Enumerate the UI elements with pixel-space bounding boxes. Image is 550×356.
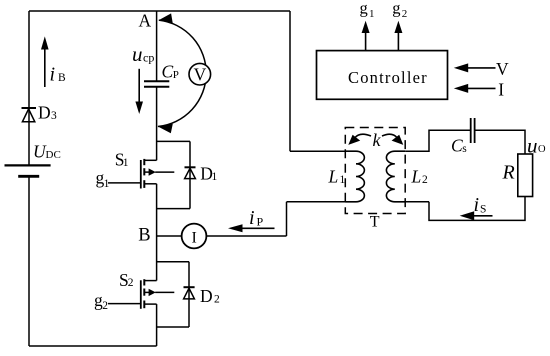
svg-text:T: T xyxy=(370,213,380,230)
voltmeter V xyxy=(189,63,211,85)
S2 drain stub xyxy=(144,280,156,282)
S1 gate bar xyxy=(140,160,142,189)
svg-text:S: S xyxy=(480,203,486,215)
svg-text:1: 1 xyxy=(340,174,346,186)
svg-text:D: D xyxy=(38,102,51,122)
wire L2 bottom lead xyxy=(405,201,429,203)
svg-text:A: A xyxy=(139,10,152,30)
MOSFET S2 xyxy=(108,279,174,309)
svg-text:D: D xyxy=(200,286,213,306)
svg-text:O: O xyxy=(538,144,546,155)
S2 body arrowhead xyxy=(149,289,156,296)
svg-text:g: g xyxy=(392,0,400,17)
inductor L1 xyxy=(345,151,364,202)
battery UDC long plate xyxy=(5,164,51,166)
controller input arrow V xyxy=(454,63,496,72)
S1 body arrowhead xyxy=(149,168,156,175)
wire D1 top tap xyxy=(157,140,190,142)
svg-text:Controller: Controller xyxy=(348,68,428,87)
inductor L2 xyxy=(386,151,405,202)
svg-text:I: I xyxy=(192,230,197,247)
svg-text:2: 2 xyxy=(214,293,220,305)
wire primary bottom riser xyxy=(286,202,288,236)
svg-text:2: 2 xyxy=(128,277,134,289)
wire D2 branch xyxy=(188,262,190,327)
wire mid rail CP to S1 drain xyxy=(156,87,158,160)
S1 drain stub xyxy=(144,159,156,161)
gate signal arrow g2 xyxy=(394,21,402,51)
S1 gate lead g1 xyxy=(108,182,141,184)
wire L2 top lead riser xyxy=(405,130,471,151)
svg-text:i: i xyxy=(249,207,255,229)
wire left rail upper xyxy=(28,11,30,165)
annotation arrow iS xyxy=(460,211,493,220)
wire D1 bottom tap xyxy=(157,208,190,210)
svg-text:B: B xyxy=(58,72,66,84)
wire left rail lower xyxy=(28,176,30,346)
diode D2 xyxy=(184,287,195,299)
wire L1 top lead xyxy=(290,150,356,152)
wire R to bottom xyxy=(429,197,525,221)
wire I meter to primary corner xyxy=(206,235,286,237)
wire Cs to right corner xyxy=(475,130,525,154)
coupling k arrow left xyxy=(348,134,371,145)
ammeter I xyxy=(182,224,207,249)
S2 source stub xyxy=(144,303,156,305)
wire D2 bottom tap xyxy=(157,326,189,328)
capacitor CP xyxy=(144,81,169,86)
svg-text:1: 1 xyxy=(369,8,375,20)
wire mid rail S1 source to S2 drain xyxy=(156,184,158,281)
svg-text:L: L xyxy=(328,167,339,187)
MOSFET S1 xyxy=(108,159,174,189)
svg-text:I: I xyxy=(498,80,504,100)
svg-text:3: 3 xyxy=(51,110,57,122)
wire mid rail S2 source to bottom xyxy=(156,304,158,346)
voltmeter arc bottom arrowhead xyxy=(158,124,173,133)
svg-text:k: k xyxy=(373,130,382,150)
annotation arrow ucp xyxy=(135,69,143,114)
wire top bus xyxy=(29,10,290,12)
svg-text:u: u xyxy=(132,42,143,66)
svg-text:g: g xyxy=(360,0,368,17)
wire bottom bus xyxy=(29,345,157,347)
transformer dashed box xyxy=(345,128,405,214)
svg-text:s: s xyxy=(462,143,467,155)
diode D3 xyxy=(22,108,37,122)
wire mid rail A to CP xyxy=(156,11,158,81)
secondary wires xyxy=(405,130,525,220)
S1 channel segments xyxy=(143,159,145,165)
voltmeter arc top arrowhead xyxy=(159,13,173,23)
S2 body lead with arrow xyxy=(144,291,149,293)
svg-text:R: R xyxy=(502,162,515,184)
svg-text:1: 1 xyxy=(104,178,110,190)
battery UDC short plate xyxy=(18,175,39,178)
svg-text:V: V xyxy=(496,59,509,79)
capacitor Cs xyxy=(471,118,475,143)
S1 body lead with arrow xyxy=(144,171,149,173)
annotation arrow iB xyxy=(41,36,49,87)
svg-text:2: 2 xyxy=(102,300,108,312)
svg-text:L: L xyxy=(411,167,422,187)
svg-text:V: V xyxy=(194,64,207,84)
voltmeter lead arc xyxy=(158,20,206,126)
wire node A to top right corner drop xyxy=(289,11,291,151)
svg-text:B: B xyxy=(138,226,150,246)
controller input arrow I xyxy=(454,84,496,93)
svg-text:i: i xyxy=(50,64,56,86)
svg-text:i: i xyxy=(474,194,480,216)
S1 source stub xyxy=(144,183,156,185)
svg-text:2: 2 xyxy=(402,8,408,20)
svg-text:P: P xyxy=(257,214,264,228)
S2 gate bar xyxy=(140,280,142,309)
wire node B to I meter xyxy=(157,235,182,237)
controller box xyxy=(317,51,448,100)
svg-text:DC: DC xyxy=(46,149,61,161)
svg-text:P: P xyxy=(173,69,179,81)
svg-text:1: 1 xyxy=(123,157,129,169)
resistor R xyxy=(518,154,533,197)
diode D1 xyxy=(185,167,196,178)
svg-text:1: 1 xyxy=(212,171,218,183)
svg-text:C: C xyxy=(451,136,463,156)
annotation arrow iP xyxy=(228,224,275,232)
svg-text:C: C xyxy=(162,62,174,82)
wire D2 top tap xyxy=(157,261,189,263)
wire L1 bottom lead xyxy=(287,201,357,203)
svg-text:2: 2 xyxy=(422,174,428,186)
coupling k arrow right xyxy=(382,134,403,145)
S2 gate lead g2 xyxy=(108,303,141,305)
S2 channel segments xyxy=(143,279,145,285)
gate signal arrow g1 xyxy=(362,21,370,51)
wire D1 branch xyxy=(189,141,191,208)
svg-text:cp: cp xyxy=(143,51,154,65)
